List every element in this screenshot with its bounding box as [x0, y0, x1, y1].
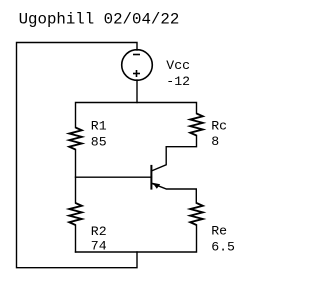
svg-text:Rc: Rc	[211, 118, 227, 133]
svg-text:6.5: 6.5	[211, 239, 235, 254]
svg-text:74: 74	[91, 239, 107, 254]
svg-text:85: 85	[91, 135, 107, 150]
svg-text:8: 8	[211, 134, 219, 149]
svg-text:R1: R1	[91, 118, 107, 133]
svg-text:-12: -12	[166, 74, 190, 89]
svg-text:R2: R2	[91, 224, 107, 239]
svg-text:Ugophill 02/04/22: Ugophill 02/04/22	[19, 10, 180, 28]
svg-text:Vcc: Vcc	[166, 58, 190, 73]
svg-text:Re: Re	[211, 223, 227, 238]
